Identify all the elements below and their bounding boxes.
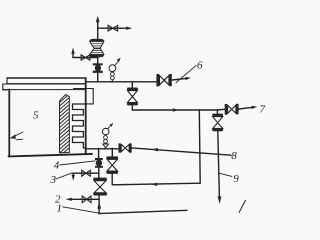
valve 7 (flanged bowtie) — [225, 104, 228, 115]
valve 4 (dark ball valve) — [95, 158, 103, 160]
tank 5 bottom wall — [9, 154, 93, 157]
wire: to valve 7 — [217, 108, 225, 111]
wire: top right branch — [98, 27, 127, 29]
heater element (hatched bar) inside tank — [60, 95, 70, 153]
valve (bowtie) on branch 3 — [82, 170, 91, 176]
arrow after valve 7 — [239, 107, 252, 109]
arrow up at top of steam pipe — [96, 16, 100, 22]
pressure gauge with cock (lower) — [103, 144, 109, 148]
wire: below valve 4 — [98, 168, 100, 178]
wire: elbow to lower header — [132, 105, 217, 110]
valve (bowtie) on left branch — [81, 55, 90, 60]
arrow after valve 6 — [172, 79, 185, 80]
flow arrow left on pipe 8 — [151, 148, 158, 152]
wire: return run to left assembly — [112, 183, 200, 185]
gate valve V2 under header — [127, 88, 138, 91]
leader line for label 6 — [176, 65, 196, 82]
gate valve V5 on drop from pipe A — [111, 148, 113, 156]
svg-text:8: 8 — [231, 150, 237, 162]
tank 5 right wall — [85, 78, 87, 154]
valve (flanged bowtie) on pipe A — [119, 143, 121, 152]
heater element hatching — [60, 96, 69, 152]
svg-text:9: 9 — [233, 173, 239, 185]
flow arrow up on cold water riser — [97, 202, 101, 209]
vent stub with up arrow at left branch end — [72, 53, 74, 58]
flow arrow on lower header — [173, 108, 179, 111]
valve (bowtie) on top right branch — [108, 25, 118, 31]
wire: below V4 — [98, 196, 100, 214]
safety valve (dark ball) on steam pipe — [93, 63, 103, 65]
valve (bowtie) on branch 2 — [82, 196, 91, 203]
wire: cold water supply pipe 1 — [99, 210, 187, 213]
svg-text:2: 2 — [55, 194, 61, 206]
tank 5 left wall — [8, 89, 10, 156]
svg-text:4: 4 — [54, 159, 60, 171]
wire: blowdown line 9 going down — [218, 131, 220, 196]
drain stub with down arrow on branch 3 — [72, 173, 74, 175]
wire: drop from header to valve row 2 — [131, 82, 133, 88]
wire: left branch below gate valve — [73, 57, 98, 59]
burner scribble at tank left wall — [13, 132, 23, 140]
tank 5 top rim line — [3, 89, 86, 91]
valve 6 (flanged bowtie) — [156, 74, 159, 86]
pressure gauge with cock (upper) — [111, 80, 113, 82]
leader line for label 3 — [56, 173, 73, 179]
wire: branch 3 — [73, 172, 99, 174]
wire: main vertical steam pipe above tank — [97, 22, 99, 82]
svg-text:5: 5 — [33, 109, 39, 121]
stray mark bottom right — [239, 200, 245, 212]
tank 5 lid bottom line — [7, 83, 86, 85]
arrow right on top branch — [126, 27, 132, 30]
wire: header pipe from tank to valve 6 — [86, 81, 157, 83]
gate valve V3 below junction — [216, 110, 218, 114]
wire: pipe A from tank bottom — [86, 148, 119, 150]
node: coil connection box on tank right wall — [74, 89, 94, 104]
wire: below V5 to return run — [111, 174, 113, 185]
flow arrow left on return run — [150, 183, 157, 186]
wire: return riser (vertical 1) — [198, 110, 201, 183]
leader line for label 1 — [63, 207, 102, 214]
wire: branch 2 — [72, 198, 100, 200]
wire: drop from pipe A to valve 4 — [98, 149, 100, 159]
heating coil (serpentine) — [73, 104, 86, 148]
svg-text:6: 6 — [197, 60, 203, 72]
leader line for label 4 — [60, 161, 95, 165]
tank 5 lid top line — [7, 77, 86, 79]
gate valve (hatched) on steam pipe — [90, 39, 104, 42]
wire: pipe 8 from tank drain valve to riser (with label leader) — [132, 148, 231, 155]
arrow down at end of line 9 — [218, 196, 222, 204]
gate valve V4 on cold water riser — [93, 178, 107, 181]
leader line for label 9 — [219, 173, 232, 176]
tank 5 lid left cap — [3, 79, 8, 90]
svg-text:7: 7 — [260, 104, 266, 116]
arrow left at end of branch 2 — [66, 198, 72, 201]
svg-text:3: 3 — [50, 174, 57, 186]
